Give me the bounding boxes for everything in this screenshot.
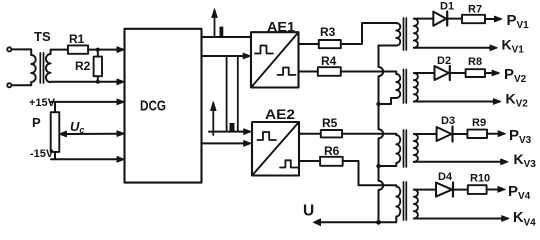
- T1 primary winding: [396, 23, 400, 46]
- waveform pulse glyph 2: [230, 123, 235, 132]
- U input arrow: [314, 219, 321, 226]
- wire R8 to PV2 arrow: [485, 72, 492, 74]
- node bus-T3: [376, 164, 380, 168]
- svg-text:KV2: KV2: [506, 91, 529, 110]
- svg-text:R5: R5: [322, 116, 338, 130]
- wire terminal-bottom to TS primary: [11, 82, 31, 85]
- wire AE2 out2 to R6: [299, 160, 320, 162]
- transformer T2: [396, 70, 418, 104]
- wire terminal-top to TS primary: [11, 49, 31, 55]
- arrow into AE1: [243, 53, 250, 59]
- AE1 pulse symbol bottom-right: [278, 68, 296, 75]
- wire wiper Uc to DCG: [65, 133, 119, 135]
- wire B: DCG to AE1 lower input: [202, 55, 245, 57]
- svg-text:KV1: KV1: [502, 37, 525, 56]
- T4 secondary winding: [414, 190, 418, 219]
- wire +15V to DCG: [51, 101, 119, 103]
- diode D4: [436, 183, 453, 197]
- wire T1 primary bottom to bus: [379, 45, 397, 47]
- svg-text:R4: R4: [321, 54, 337, 68]
- node junction R1-R2: [96, 48, 100, 52]
- wire T4 secondary top to D4: [414, 189, 436, 191]
- potentiometer P: [51, 112, 60, 152]
- resistor R7: [462, 15, 485, 23]
- wire D2 to R8: [450, 72, 466, 74]
- transformer T1: [396, 18, 418, 50]
- arrow into DCG input 2: [117, 79, 124, 85]
- wire V1 vertical branch: [226, 56, 228, 132]
- node bus-T2: [376, 102, 380, 106]
- converter block AE2: [252, 122, 299, 176]
- wire T3 secondary top to D3: [414, 133, 437, 135]
- svg-text:DCG: DCG: [140, 98, 166, 115]
- T4 core: [404, 182, 407, 220]
- diode D1: [433, 12, 447, 26]
- wire R2 top stub: [97, 50, 99, 57]
- resistor R10: [468, 185, 487, 194]
- wire -15V to DCG: [51, 158, 119, 160]
- arrow into DCG input 5: [117, 157, 124, 163]
- svg-text:+15V: +15V: [29, 97, 56, 109]
- svg-text:Uc: Uc: [70, 119, 84, 135]
- svg-text:R9: R9: [472, 117, 486, 129]
- transformer TS: [31, 53, 50, 83]
- svg-text:PV3: PV3: [509, 127, 532, 146]
- wire U line: [319, 221, 379, 223]
- wire T2 secondary top to D2: [414, 72, 435, 74]
- bus vertical with hops: [379, 46, 384, 223]
- svg-text:R1: R1: [69, 32, 85, 46]
- wire AE2 out1 to R5: [299, 133, 321, 135]
- svg-text:D4: D4: [438, 171, 453, 183]
- svg-text:PV1: PV1: [507, 12, 530, 31]
- input terminal bottom: [7, 83, 11, 87]
- wire bus to T4 primary bottom: [379, 217, 397, 223]
- svg-text:R3: R3: [320, 25, 336, 39]
- AE2 pulse symbol top-left: [257, 132, 276, 140]
- svg-text:R8: R8: [468, 56, 482, 68]
- T3 core: [404, 130, 407, 167]
- AE2 pulse symbol bottom-right: [280, 160, 298, 167]
- svg-text:PV4: PV4: [508, 183, 531, 202]
- resistor R2: [94, 57, 102, 77]
- svg-text:AE2: AE2: [265, 107, 295, 122]
- resistor R5: [321, 130, 342, 137]
- diode D2: [435, 66, 450, 80]
- node junction R2-bottom: [96, 80, 100, 84]
- wire R9 to PV3 arrow: [487, 133, 497, 135]
- TS secondary winding: [46, 54, 51, 82]
- AE1 pulse symbol top-left: [255, 46, 273, 54]
- svg-text:-15V: -15V: [30, 148, 54, 160]
- waveform axis arrow 1: [214, 16, 216, 37]
- T2 primary winding: [396, 74, 400, 98]
- wire bus to T3 primary bottom: [379, 163, 397, 166]
- svg-text:TS: TS: [34, 29, 51, 44]
- block DCG: [125, 29, 202, 183]
- TS primary winding: [31, 55, 36, 82]
- svg-text:P: P: [32, 115, 41, 130]
- input terminal top: [7, 47, 11, 51]
- wire R4 to T2 primary: [341, 72, 397, 75]
- svg-text:R2: R2: [75, 59, 91, 73]
- svg-text:D1: D1: [440, 1, 454, 13]
- node bus-U: [376, 220, 381, 225]
- svg-text:R10: R10: [470, 173, 490, 185]
- T2 core: [404, 70, 407, 104]
- arrow into AE2 lower: [244, 141, 251, 147]
- wire R10 to PV4 arrow: [487, 189, 497, 191]
- resistor R8: [466, 69, 485, 77]
- wire R5 to T3 primary: [342, 134, 396, 135]
- resistor R4: [318, 67, 341, 76]
- transformer T3: [396, 130, 418, 167]
- T1 secondary winding: [414, 19, 418, 48]
- arrow into AE2 upper: [244, 129, 251, 135]
- waveform pulse glyph 1: [220, 27, 224, 37]
- T3 primary winding: [396, 135, 400, 163]
- svg-text:D2: D2: [437, 55, 451, 67]
- wire D1 to R7: [447, 18, 462, 20]
- wire V2 vertical branch: [237, 56, 239, 132]
- wire T4 secondary bottom KV4: [414, 218, 501, 220]
- wire T1 secondary top to D1: [414, 18, 433, 20]
- arrow into DCG input 3: [117, 99, 124, 105]
- wire TS secondary bottom to DCG: [51, 81, 119, 83]
- arrow into DCG input 4: [117, 131, 124, 137]
- wire TS secondary top to R1: [51, 50, 68, 54]
- wire A: DCG to AE1 top input: [202, 36, 252, 38]
- diode D3: [437, 127, 453, 142]
- wire R2 bottom stub: [97, 76, 99, 82]
- potentiometer wiper arrow: [59, 131, 66, 137]
- T4 primary winding: [396, 187, 400, 217]
- wire C: to AE2 upper input: [209, 131, 245, 133]
- transformer T4: [396, 182, 418, 220]
- T3 secondary winding: [414, 134, 418, 162]
- wire R6 to T4 primary: [343, 161, 397, 187]
- T2 secondary winding: [414, 73, 418, 101]
- converter block AE1: [251, 32, 299, 87]
- wire AE1 out2 to R4: [299, 71, 318, 73]
- svg-text:PV2: PV2: [504, 66, 527, 85]
- resistor R1: [68, 45, 88, 53]
- wire D: DCG to AE2 lower input: [202, 142, 245, 144]
- arrow into DCG input 1: [117, 47, 124, 53]
- svg-text:D3: D3: [441, 115, 455, 127]
- wire R7 to PV1 arrow: [485, 18, 495, 20]
- T1 core: [404, 18, 407, 50]
- wire D3 to R9: [453, 133, 468, 135]
- wire T2 secondary bottom KV2: [414, 101, 493, 103]
- resistor R9: [467, 130, 487, 138]
- svg-text:R6: R6: [324, 144, 340, 158]
- wire AE1 out1 to R3: [299, 43, 319, 45]
- svg-text:AE1: AE1: [267, 20, 296, 35]
- resistor R6: [320, 157, 343, 166]
- svg-text:U: U: [303, 203, 314, 220]
- svg-text:KV4: KV4: [513, 210, 536, 229]
- svg-text:KV3: KV3: [514, 151, 537, 170]
- wire R1 to DCG: [88, 49, 118, 51]
- wire P top stub: [54, 102, 56, 112]
- wire D4 to R10: [453, 189, 468, 191]
- TS core: [40, 53, 43, 83]
- wire T3 secondary bottom KV3: [414, 161, 500, 163]
- waveform axis arrow 2: [212, 109, 214, 135]
- wire P bottom stub: [54, 152, 56, 159]
- resistor R3: [319, 40, 341, 48]
- wire R3 to T1 primary: [341, 23, 397, 44]
- wire T1 secondary bottom KV1: [414, 47, 490, 49]
- svg-text:R7: R7: [468, 4, 482, 16]
- wire bus to T2 primary bottom: [379, 98, 397, 104]
